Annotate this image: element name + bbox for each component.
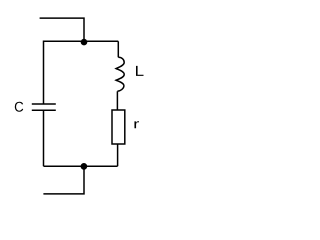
wire top terminal lead bbox=[40, 18, 84, 39]
wire left branch lower bbox=[43, 110, 45, 166]
capacitor C top plate bbox=[32, 103, 56, 105]
resistor r body bbox=[112, 110, 125, 144]
junction dot bottom bbox=[81, 163, 88, 170]
label L bbox=[136, 66, 144, 76]
wire top bus node A bbox=[44, 41, 119, 104]
junction dot top bbox=[81, 39, 88, 46]
capacitor C bottom plate bbox=[32, 109, 56, 111]
wire right branch upper bbox=[117, 41, 119, 57]
wire bottom bus node B bbox=[44, 165, 118, 167]
inductor L coil bbox=[116, 57, 124, 91]
label r bbox=[134, 121, 139, 128]
label C bbox=[15, 102, 23, 112]
wire bottom terminal lead bbox=[43, 166, 84, 194]
wire inductor to resistor bbox=[116, 91, 118, 110]
wire resistor to bottom bus bbox=[117, 144, 119, 166]
